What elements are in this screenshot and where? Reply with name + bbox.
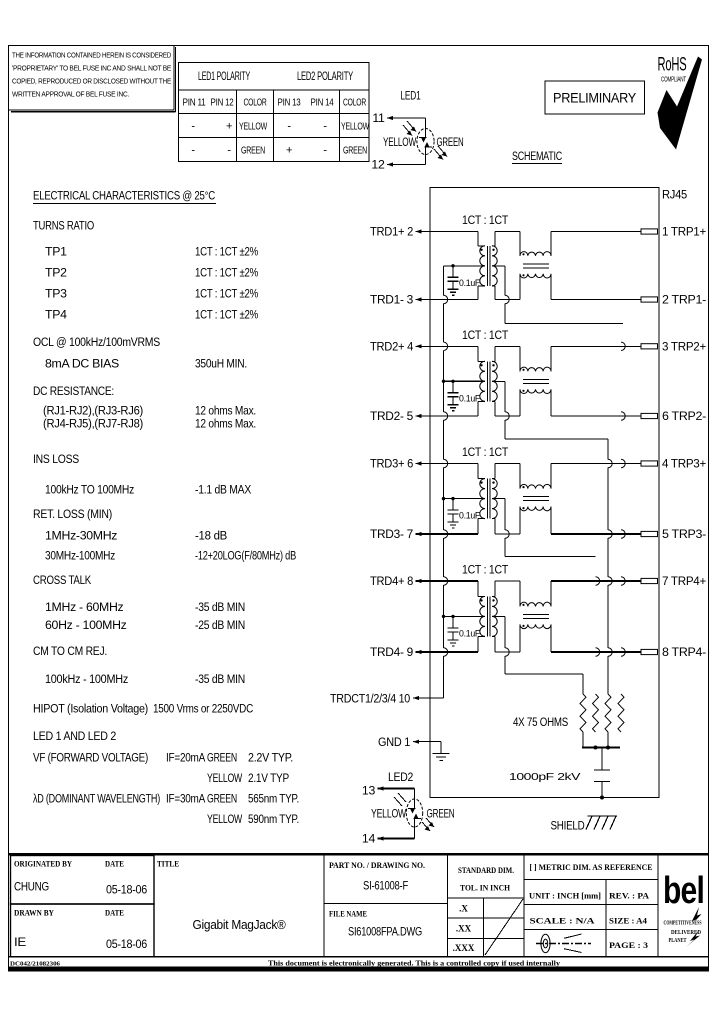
wire TRD1- to transformer T1 <box>416 286 486 300</box>
wire primary center tap T3 <box>442 497 485 500</box>
spec TP4 <box>45 308 258 322</box>
resistor R4 75 ohms <box>618 694 624 732</box>
svg-text:PLANET: PLANET <box>669 938 687 944</box>
pin label TRP2+ pin 3 <box>662 340 706 354</box>
svg-text:IE: IE <box>14 935 26 949</box>
svg-text:GREEN: GREEN <box>427 807 455 821</box>
svg-text:PIN 14: PIN 14 <box>311 98 334 109</box>
svg-text:1500 Vrms or 2250VDC: 1500 Vrms or 2250VDC <box>153 701 253 715</box>
svg-text:1CT : 1CT: 1CT : 1CT <box>462 445 509 459</box>
RJ45 pad pin 4 <box>641 461 658 466</box>
svg-text:TRD2- 5: TRD2- 5 <box>370 409 413 423</box>
metric reference cell <box>524 854 658 957</box>
pin label TRD4+ pin 8 <box>370 574 422 588</box>
common-mode choke L2 core <box>523 379 549 383</box>
svg-text:YELLOW: YELLOW <box>207 771 242 785</box>
SCHEMATIC heading <box>512 151 562 164</box>
svg-text:DC042/21082306: DC042/21082306 <box>10 961 61 968</box>
capacitor C1 0.1uF <box>448 266 481 290</box>
spec return loss 2 <box>45 548 296 562</box>
common-mode choke L1 core <box>523 264 549 268</box>
svg-text:INS LOSS: INS LOSS <box>33 452 79 466</box>
svg-text:RET. LOSS (MIN): RET. LOSS (MIN) <box>33 507 112 521</box>
svg-text:FILE NAME: FILE NAME <box>329 910 367 919</box>
common-mode choke L4 top winding <box>520 602 551 606</box>
spec CM rejection heading <box>33 644 107 658</box>
svg-text:2 TRP1-: 2 TRP1- <box>662 293 706 307</box>
LED2 color labels <box>371 807 455 821</box>
common-mode choke L2 bottom winding <box>520 389 551 393</box>
svg-text:SIZE : A4: SIZE : A4 <box>609 917 647 926</box>
pin label TRP3+ pin 4 <box>662 457 706 471</box>
shield chassis symbol <box>551 816 618 833</box>
label 1CT:1CT T4 <box>462 563 509 577</box>
svg-text:GREEN: GREEN <box>241 146 265 157</box>
RJ45 pad pin 5 <box>641 531 658 536</box>
LED2 light arrows <box>394 793 434 831</box>
svg-text:-35 dB MIN: -35 dB MIN <box>195 600 245 614</box>
svg-text:THE INFORMATION CONTAINED HERE: THE INFORMATION CONTAINED HEREIN IS CONS… <box>12 51 171 60</box>
wire choke L4 to pad 7 <box>551 581 641 606</box>
svg-text:05-18-06: 05-18-06 <box>106 937 147 951</box>
svg-text:0.1uF: 0.1uF <box>459 393 480 404</box>
svg-text:LED1: LED1 <box>401 89 421 103</box>
svg-text:SI61008FPA.DWG: SI61008FPA.DWG <box>348 925 422 939</box>
resistor R2 75 ohms <box>593 694 599 732</box>
wire T2 secondary bottom to choke L2 <box>492 389 520 416</box>
wire TRD1+ to transformer T1 <box>416 232 486 246</box>
svg-text:PIN 12: PIN 12 <box>211 98 234 109</box>
electrical characteristics heading <box>33 189 216 204</box>
svg-text:1000pF 2kV: 1000pF 2kV <box>509 772 581 783</box>
transformer T3 core <box>487 479 490 519</box>
pin label TRP4- pin 8 <box>662 645 706 659</box>
svg-text:OCL @ 100kHz/100mVRMS: OCL @ 100kHz/100mVRMS <box>33 335 160 349</box>
bel logo <box>658 854 704 957</box>
pin label TRP2- pin 6 <box>662 409 706 423</box>
wire primary center tap T4 <box>442 615 485 618</box>
wire T1 secondary top to choke L1 <box>492 232 520 256</box>
transformer T1 core <box>487 246 490 286</box>
ground at capacitor C2 <box>448 405 459 411</box>
svg-text:350uH MIN.: 350uH MIN. <box>195 356 247 370</box>
svg-text:RoHS: RoHS <box>658 55 687 76</box>
svg-text:IF=20mA: IF=20mA <box>166 751 206 765</box>
proprietary notice box <box>9 46 176 112</box>
svg-text:(RJ1-RJ2),(RJ3-RJ6): (RJ1-RJ2),(RJ3-RJ6) <box>43 404 143 418</box>
wire T2 secondary center tap to R3 <box>492 381 608 439</box>
wire center-tap vertical to R3 <box>608 439 612 694</box>
spec OCL heading <box>33 335 160 349</box>
wire primary center tap T1 <box>444 264 486 267</box>
schematic enclosure box <box>430 188 659 798</box>
svg-text:HIPOT (Isolation Voltage): HIPOT (Isolation Voltage) <box>33 701 148 715</box>
svg-text:4 TRP3+: 4 TRP3+ <box>662 457 706 471</box>
svg-text:4X 75 OHMS: 4X 75 OHMS <box>513 715 568 729</box>
pin label TRD3+ pin 6 <box>370 457 422 471</box>
wire choke L2 to pad 6 <box>551 389 641 416</box>
pin label TRD1+ pin 2 <box>370 225 422 239</box>
wire choke L3 to pad 4 <box>551 464 641 489</box>
svg-text:GND 1: GND 1 <box>378 735 410 749</box>
spec TP1 <box>45 245 258 259</box>
pin label TRP3- pin 5 <box>662 527 706 541</box>
common-mode choke L3 bottom winding <box>520 507 551 511</box>
transformer T1 secondary winding <box>492 246 497 286</box>
wire T2 secondary top to choke L2 <box>492 346 520 371</box>
svg-text:1CT : 1CT: 1CT : 1CT <box>462 328 509 342</box>
spec return loss heading <box>33 507 112 521</box>
wire T1 secondary bottom to choke L1 <box>492 274 520 300</box>
svg-text:λD (DOMINANT WAVELENGTH): λD (DOMINANT WAVELENGTH) <box>33 792 160 806</box>
LED2 label <box>388 770 413 784</box>
svg-text:+: + <box>286 145 292 157</box>
drawn-by box <box>11 904 155 957</box>
third angle projection symbol <box>536 934 591 953</box>
svg-text:TRD2+ 4: TRD2+ 4 <box>370 340 413 354</box>
svg-text:TOL. IN INCH: TOL. IN INCH <box>460 884 511 893</box>
svg-text:05-18-06: 05-18-06 <box>106 883 147 897</box>
svg-text:LED2: LED2 <box>388 770 413 784</box>
svg-text:100kHz - 100MHz: 100kHz - 100MHz <box>45 672 128 686</box>
svg-text:GREEN: GREEN <box>207 792 237 806</box>
svg-text:PRELIMINARY: PRELIMINARY <box>553 91 636 106</box>
wire choke L2 to pad 3 <box>551 346 641 371</box>
svg-text:1MHz-30MHz: 1MHz-30MHz <box>45 529 117 543</box>
transformer T3 secondary winding <box>492 479 497 519</box>
svg-text:1CT : 1CT ±2%: 1CT : 1CT ±2% <box>195 245 258 259</box>
svg-text:-18 dB: -18 dB <box>195 529 227 543</box>
svg-text:8mA DC BIAS: 8mA DC BIAS <box>45 356 119 370</box>
svg-text:1 TRP1+: 1 TRP1+ <box>662 225 706 239</box>
spec LED heading <box>33 729 116 743</box>
svg-text:12: 12 <box>371 158 385 172</box>
svg-text:30MHz-100MHz: 30MHz-100MHz <box>45 548 115 562</box>
svg-text:WRITTEN APPROVAL OF BEL FUSE I: WRITTEN APPROVAL OF BEL FUSE INC. <box>12 90 129 99</box>
transformer T4 core <box>487 596 490 636</box>
title block frame <box>8 854 709 957</box>
svg-text:TURNS RATIO: TURNS RATIO <box>33 219 94 233</box>
pin label TRD2- pin 5 <box>370 409 422 423</box>
common-mode choke L3 top winding <box>520 484 551 488</box>
pin label 14 <box>362 832 384 846</box>
svg-text:TRD1+ 2: TRD1+ 2 <box>370 225 413 239</box>
svg-text:TP1: TP1 <box>45 245 67 259</box>
label 1CT:1CT T3 <box>462 445 509 459</box>
transformer T2 primary winding <box>480 361 485 401</box>
svg-text:1CT : 1CT: 1CT : 1CT <box>462 213 509 227</box>
svg-text:13: 13 <box>362 784 376 798</box>
svg-text:CHUNG: CHUNG <box>14 880 49 894</box>
svg-text:YELLOW: YELLOW <box>239 122 267 133</box>
spec crosstalk heading <box>33 573 92 587</box>
wire primary center tap T2 <box>442 380 485 383</box>
wire TRD4+ to transformer T4 <box>416 581 486 596</box>
svg-text:1CT : 1CT: 1CT : 1CT <box>462 563 509 577</box>
svg-text:COLOR: COLOR <box>343 98 366 109</box>
pin label GND pin 1 <box>378 735 419 749</box>
RJ45 pad pin 6 <box>641 413 658 418</box>
svg-text:60Hz - 100MHz: 60Hz - 100MHz <box>45 618 127 632</box>
svg-text:ORIGINATED BY: ORIGINATED BY <box>14 860 72 869</box>
pin label 12 <box>371 158 393 172</box>
svg-text:REV. : PA: REV. : PA <box>609 892 649 901</box>
transformer T4 secondary winding <box>492 596 497 636</box>
spec hipot <box>33 701 253 715</box>
RoHS compliant logo with checkmark <box>658 55 703 150</box>
RJ45 pad pin 7 <box>641 578 658 583</box>
wire choke L1 to pad 1 <box>551 232 641 256</box>
LED1 bi-color diode <box>417 129 434 155</box>
svg-text:YELLOW: YELLOW <box>371 807 406 821</box>
svg-text:DATE: DATE <box>105 909 124 918</box>
document control number <box>10 961 61 968</box>
svg-text:TRD4+ 8: TRD4+ 8 <box>370 574 413 588</box>
pin label TRD3- pin 7 <box>370 527 422 541</box>
svg-text:bel: bel <box>663 870 704 912</box>
svg-text:VF (FORWARD VOLTAGE): VF (FORWARD VOLTAGE) <box>33 751 148 765</box>
wire TRD2+ to transformer T2 <box>416 346 486 361</box>
svg-text:UNIT : INCH [mm]: UNIT : INCH [mm] <box>529 892 601 901</box>
title cell <box>154 854 286 957</box>
svg-text:[ ] METRIC DIM. AS REFERENCE: [ ] METRIC DIM. AS REFERENCE <box>530 863 653 872</box>
svg-text:3 TRP2+: 3 TRP2+ <box>662 340 706 354</box>
svg-text:1MHz - 60MHz: 1MHz - 60MHz <box>45 600 124 614</box>
svg-text:TP4: TP4 <box>45 308 67 322</box>
svg-text:COMPLIANT: COMPLIANT <box>661 77 687 84</box>
capacitor C3 0.1uF <box>448 499 481 522</box>
label 1CT:1CT T1 <box>462 213 509 227</box>
resistor R3 75 ohms <box>605 694 611 748</box>
svg-text:12 ohms Max.: 12 ohms Max. <box>195 417 256 431</box>
spec crosstalk 1 <box>45 600 245 614</box>
svg-text:SHIELD: SHIELD <box>551 819 585 833</box>
wire T3 secondary center tap to R2 <box>492 499 596 557</box>
svg-text:'PROPRIETARY' TO BEL FUSE INC: 'PROPRIETARY' TO BEL FUSE INC AND SHALL … <box>12 64 171 73</box>
wire GND pin 1 <box>413 742 441 754</box>
svg-text:.XX: .XX <box>456 924 472 934</box>
svg-text:YELLOW: YELLOW <box>207 812 242 826</box>
transformer T1 primary winding <box>480 246 485 286</box>
spec DCR 1 <box>43 404 256 418</box>
wire TRD3+ to transformer T3 <box>416 464 486 479</box>
svg-text:14: 14 <box>362 832 376 846</box>
svg-text:LED2 POLARITY: LED2 POLARITY <box>297 71 353 83</box>
part number cell <box>324 854 448 957</box>
spec LED forward voltage <box>33 751 293 785</box>
svg-text:ELECTRICAL CHARACTERISTICS @ 2: ELECTRICAL CHARACTERISTICS @ 25°C <box>33 189 215 203</box>
svg-text:COMPETITIVENESS: COMPETITIVENESS <box>664 921 702 927</box>
RJ45 pad pin 8 <box>641 649 658 654</box>
spec crosstalk 2 <box>45 618 245 632</box>
wire pin 14 to LED2 <box>378 827 415 839</box>
spec LED wavelength <box>33 792 299 826</box>
transformer T2 secondary winding <box>492 361 497 401</box>
wire T4 secondary bottom to choke L4 <box>492 624 520 652</box>
svg-text:.XXX: .XXX <box>453 943 475 953</box>
svg-text:7 TRP4+: 7 TRP4+ <box>662 574 706 588</box>
svg-text:YELLOW: YELLOW <box>383 135 416 149</box>
wire center-tap vertical to R2 <box>596 577 600 656</box>
resistor common bus <box>582 746 620 750</box>
svg-text:TRD1- 3: TRD1- 3 <box>370 293 413 307</box>
svg-text:GREEN: GREEN <box>437 135 464 149</box>
svg-text:12 ohms Max.: 12 ohms Max. <box>195 404 256 418</box>
wire TRDCT bus <box>444 266 448 698</box>
spec TP2 <box>45 266 258 280</box>
svg-text:590nm TYP.: 590nm TYP. <box>248 812 299 826</box>
wire pin 11 to LED1 <box>387 118 426 129</box>
svg-text:Gigabit MagJack®: Gigabit MagJack® <box>193 917 287 932</box>
RJ45 pad pin 1 <box>641 229 658 234</box>
svg-text:PIN 11: PIN 11 <box>183 98 206 109</box>
svg-text:565nm TYP.: 565nm TYP. <box>248 792 299 806</box>
LED1 light arrows <box>403 121 447 160</box>
wire T1 secondary center tap to R4 <box>492 266 623 324</box>
wire TRD2- to transformer T2 <box>416 401 486 416</box>
svg-text:TP2: TP2 <box>45 266 67 280</box>
svg-text:8 TRP4-: 8 TRP4- <box>662 645 706 659</box>
wire pin 10 to bus <box>413 697 444 699</box>
svg-text:RJ45: RJ45 <box>662 188 687 202</box>
spec OCL bias <box>45 356 247 370</box>
svg-text:2.1V TYP: 2.1V TYP <box>248 771 289 785</box>
svg-text:SCALE : N/A: SCALE : N/A <box>530 917 595 926</box>
spec insertion loss <box>45 483 251 497</box>
svg-text:-25 dB MIN: -25 dB MIN <box>195 618 245 632</box>
svg-text:CM TO CM REJ.: CM TO CM REJ. <box>33 644 107 658</box>
spec return loss 1 <box>45 529 227 543</box>
footer note <box>268 960 561 968</box>
common-mode choke L1 bottom winding <box>520 274 551 278</box>
ground at capacitor C3 <box>448 522 459 528</box>
spec DCR 2 <box>43 417 256 431</box>
svg-text:LED1 POLARITY: LED1 POLARITY <box>198 71 250 83</box>
svg-text:1CT : 1CT ±2%: 1CT : 1CT ±2% <box>195 287 258 301</box>
svg-text:-35 dB MIN: -35 dB MIN <box>195 672 245 686</box>
pin label TRP1+ pin 1 <box>662 225 706 239</box>
ground at capacitor C4 <box>448 640 459 646</box>
common-mode choke L2 top winding <box>520 367 551 371</box>
svg-text:0.1uF: 0.1uF <box>459 278 480 289</box>
svg-text:PAGE : 3: PAGE : 3 <box>609 941 648 950</box>
wire choke L4 to pad 8 <box>551 624 641 652</box>
spec insertion loss heading <box>33 452 79 466</box>
transformer T2 core <box>487 361 490 401</box>
svg-text:COPIED, REPRODUCED OR DISCLOSE: COPIED, REPRODUCED OR DISCLOSED WITHOUT … <box>12 77 171 86</box>
label 1CT:1CT T2 <box>462 328 509 342</box>
svg-text:2.2V TYP.: 2.2V TYP. <box>248 751 293 765</box>
transformer T4 primary winding <box>480 596 485 636</box>
LED polarity table <box>179 63 370 162</box>
wire choke L1 to pad 2 <box>551 274 641 300</box>
wire TRD4- to transformer T4 <box>416 636 486 652</box>
svg-text:TITLE: TITLE <box>157 860 179 869</box>
LED1 color labels <box>383 135 464 149</box>
svg-text:1CT : 1CT ±2%: 1CT : 1CT ±2% <box>195 266 258 280</box>
spec DC resistance heading <box>33 384 114 398</box>
svg-text:TRDCT1/2/3/4 10: TRDCT1/2/3/4 10 <box>330 691 410 705</box>
spec CM rejection <box>45 672 245 686</box>
pin label 13 <box>362 784 384 798</box>
RJ45 connector label <box>662 188 687 202</box>
svg-text:This document is electronicall: This document is electronically generate… <box>268 960 561 968</box>
common-mode choke L4 core <box>523 614 549 618</box>
svg-text:IF=30mA: IF=30mA <box>166 792 206 806</box>
svg-text:0.1uF: 0.1uF <box>459 628 480 639</box>
PRELIMINARY stamp box <box>545 81 645 114</box>
wire pin 13 to LED2 <box>378 789 415 800</box>
ground at capacitor C1 <box>448 289 459 295</box>
wire pin 12 to LED1 <box>387 155 426 165</box>
RJ45 pad pin 2 <box>641 297 658 302</box>
common-mode choke L3 core <box>523 497 549 501</box>
svg-text:DRAWN BY: DRAWN BY <box>14 909 54 918</box>
svg-text:GREEN: GREEN <box>207 751 237 765</box>
wire T3 secondary top to choke L3 <box>492 464 520 489</box>
svg-text:YELLOW: YELLOW <box>341 122 369 133</box>
svg-text:PART NO. / DRAWING NO.: PART NO. / DRAWING NO. <box>329 861 425 870</box>
transformer T3 primary winding <box>480 479 485 519</box>
tolerance cell <box>448 854 525 957</box>
pin label TRD1- pin 3 <box>370 293 422 307</box>
pin label TRD2+ pin 4 <box>370 340 422 354</box>
pin label TRP4+ pin 7 <box>662 574 706 588</box>
svg-text:TRD3- 7: TRD3- 7 <box>370 527 413 541</box>
svg-text:+: + <box>226 121 232 133</box>
svg-text:1CT : 1CT ±2%: 1CT : 1CT ±2% <box>195 308 258 322</box>
wire center-tap vertical to R4 <box>621 342 625 656</box>
svg-text:(RJ4-RJ5),(RJ7-RJ8): (RJ4-RJ5),(RJ7-RJ8) <box>43 417 143 431</box>
pin label TRD4- pin 9 <box>370 645 422 659</box>
common-mode choke L4 bottom winding <box>520 624 551 628</box>
spec turns ratio heading <box>33 219 94 233</box>
LED2 bi-color diode <box>406 799 422 827</box>
svg-text:TP3: TP3 <box>45 287 67 301</box>
originated-by box <box>11 856 155 905</box>
pin label TRP1- pin 2 <box>662 293 706 307</box>
svg-text:11: 11 <box>372 111 385 125</box>
svg-text:0.1uF: 0.1uF <box>459 511 480 522</box>
spec TP3 <box>45 287 258 301</box>
resistor R1 75 ohms <box>580 694 586 748</box>
svg-text:SCHEMATIC: SCHEMATIC <box>512 151 562 163</box>
svg-text:6 TRP2-: 6 TRP2- <box>662 409 706 423</box>
svg-text:5 TRP3-: 5 TRP3- <box>662 527 706 541</box>
capacitor C4 0.1uF <box>448 616 481 640</box>
LED1 label <box>401 89 421 103</box>
pin label 11 <box>372 111 393 125</box>
common-mode choke L1 top winding <box>520 252 551 256</box>
svg-text:DATE: DATE <box>105 860 124 869</box>
svg-text:TRD4- 9: TRD4- 9 <box>370 645 413 659</box>
svg-text:COLOR: COLOR <box>244 98 267 109</box>
svg-text:SI-61008-F: SI-61008-F <box>363 879 409 893</box>
svg-text:-12+20LOG(F/80MHz) dB: -12+20LOG(F/80MHz) dB <box>195 548 296 562</box>
capacitor C2 0.1uF <box>448 381 481 405</box>
svg-text:DC RESISTANCE:: DC RESISTANCE: <box>33 384 114 398</box>
svg-text:.X: .X <box>459 904 468 914</box>
svg-text:PIN 13: PIN 13 <box>278 98 301 109</box>
wire T4 secondary center tap to R1 <box>492 616 583 674</box>
pin label TRDCT1/2/3/4 pin 10 <box>330 691 419 705</box>
svg-text:100kHz TO 100MHz: 100kHz TO 100MHz <box>45 483 134 497</box>
svg-text:TRD3+ 6: TRD3+ 6 <box>370 457 413 471</box>
resistor bank label 4X 75 OHMS <box>513 715 568 729</box>
RJ45 pad pin 3 <box>641 344 658 349</box>
wire T3 secondary bottom to choke L3 <box>492 507 520 534</box>
wire T4 secondary top to choke L4 <box>492 581 520 606</box>
